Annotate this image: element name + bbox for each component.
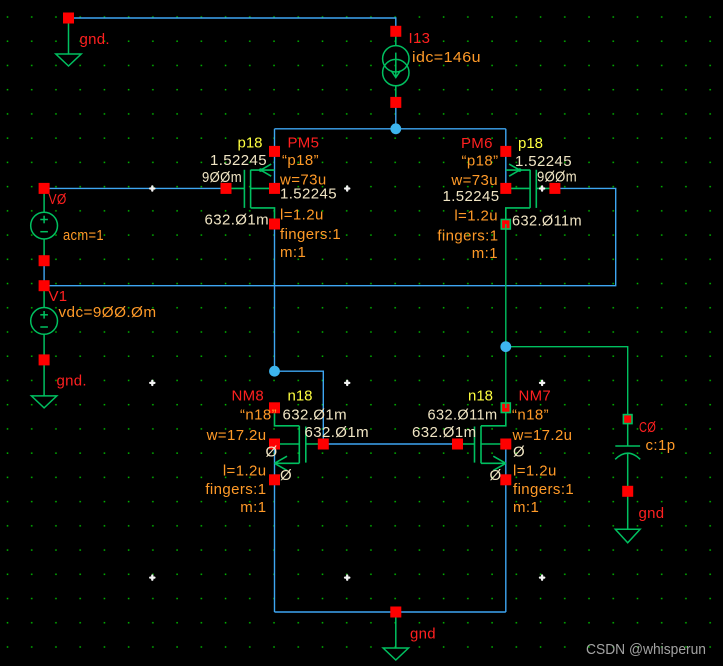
- pin I13 minus: [390, 97, 401, 108]
- svg-text:PM6: PM6: [461, 135, 493, 152]
- svg-text:632.Ø1m: 632.Ø1m: [412, 424, 477, 441]
- junction left output node: [269, 366, 280, 377]
- pin NM7 drain (green outlined): [501, 403, 510, 413]
- svg-text:l=1.2u: l=1.2u: [513, 463, 557, 480]
- svg-text:Ø: Ø: [490, 467, 502, 484]
- svg-text:PM5: PM5: [288, 135, 320, 152]
- svg-text:1.52245: 1.52245: [210, 152, 267, 169]
- PINS: [39, 13, 634, 618]
- junction right output node: [500, 341, 511, 352]
- svg-text:m:1: m:1: [472, 245, 498, 262]
- svg-text:idc=146u: idc=146u: [412, 49, 481, 66]
- svg-text:Ø: Ø: [513, 444, 525, 461]
- svg-text:w=17.2u: w=17.2u: [512, 427, 573, 444]
- wire NM7 bulk-source to bottom rail: [505, 444, 507, 612]
- pin I13 plus: [390, 26, 401, 37]
- svg-text:1.52245: 1.52245: [280, 186, 337, 203]
- svg-text:632.Ø11m: 632.Ø11m: [512, 213, 582, 230]
- svg-text:fingers:1: fingers:1: [437, 228, 498, 245]
- vsource V0: [31, 188, 104, 260]
- ground gnd1 top-left: [56, 18, 110, 66]
- svg-text:gnd.: gnd.: [57, 373, 87, 390]
- wire tail to PM6 source/bulk: [505, 129, 507, 189]
- wire junction to capacitor C0 (green net): [506, 347, 628, 419]
- svg-text:9ØØm: 9ØØm: [202, 169, 242, 186]
- svg-text:m:1: m:1: [280, 244, 306, 261]
- svg-text:NM7: NM7: [519, 388, 552, 405]
- svg-text:Ø: Ø: [280, 467, 292, 484]
- svg-text:NM8: NM8: [232, 388, 265, 405]
- wire NM8 bulk-source to bottom rail: [274, 444, 276, 612]
- svg-text:632.Ø1m: 632.Ø1m: [305, 424, 370, 441]
- svg-text:VØ: VØ: [49, 191, 67, 208]
- svg-text:1.52245: 1.52245: [515, 153, 572, 170]
- pin PM6 bulk: [500, 183, 511, 194]
- pin V0 plus: [39, 183, 50, 194]
- wire NM8 gate to NM7 gate: [323, 443, 457, 445]
- pin NM8 gate: [318, 439, 329, 450]
- svg-text:l=1.2u: l=1.2u: [454, 208, 498, 225]
- pin V0 minus: [39, 255, 50, 266]
- svg-text:CSDN @whisperun: CSDN @whisperun: [586, 641, 706, 658]
- wire gnd1 to I13 top: [69, 18, 396, 31]
- svg-text:vdc=9ØØ.Øm: vdc=9ØØ.Øm: [59, 304, 157, 321]
- pin NM7 bulk: [500, 439, 511, 450]
- wire I13 bottom to tail junction: [395, 102, 397, 128]
- svg-text:l=1.2u: l=1.2u: [223, 463, 267, 480]
- wire PM5 drain to node junction: [274, 224, 276, 371]
- svg-text:m:1: m:1: [513, 499, 539, 516]
- svg-text:l=1.2u: l=1.2u: [280, 207, 324, 224]
- pin PM5 drain: [269, 219, 280, 230]
- svg-text:p18: p18: [518, 135, 543, 152]
- svg-text:632.Ø1m: 632.Ø1m: [283, 407, 348, 424]
- pin PM6 drain (green outlined): [501, 220, 510, 230]
- svg-text:CØ: CØ: [639, 419, 656, 436]
- pin NM7 gate: [452, 439, 463, 450]
- pin gnd1: [63, 13, 74, 24]
- svg-text:“n18”: “n18”: [240, 407, 277, 424]
- svg-text:n18: n18: [468, 388, 493, 405]
- svg-text:n18: n18: [288, 388, 313, 405]
- ground gnd2 below V1: [31, 360, 87, 408]
- svg-text:fingers:1: fingers:1: [280, 226, 341, 243]
- svg-text:“p18”: “p18”: [282, 152, 319, 169]
- wire tail rail: [275, 128, 506, 130]
- svg-text:I13: I13: [409, 30, 431, 47]
- wire V1 to PM6 gate: [44, 188, 616, 285]
- pin PM5 source: [269, 146, 280, 157]
- svg-text:V1: V1: [49, 288, 68, 305]
- svg-text:9ØØm: 9ØØm: [537, 169, 577, 186]
- nmos NM8: [275, 408, 324, 471]
- pmos PM6: [506, 164, 555, 224]
- pin PM5 bulk: [269, 183, 280, 194]
- wire tail to PM5 source/bulk: [274, 129, 276, 189]
- pin NM7 source: [500, 474, 511, 485]
- pin NM8 source: [269, 474, 280, 485]
- svg-text:gnd: gnd: [410, 626, 436, 643]
- pin C0 minus: [622, 486, 633, 497]
- svg-text:fingers:1: fingers:1: [513, 481, 574, 498]
- pin PM5 gate: [221, 183, 232, 194]
- wire junction to NM8 gate: [275, 371, 324, 444]
- pin PM6 gate: [549, 183, 560, 194]
- pin C0 plus (green outlined): [623, 415, 632, 424]
- junction tail node: [390, 123, 401, 134]
- svg-text:632.Ø11m: 632.Ø11m: [428, 407, 498, 424]
- svg-text:632.Ø1m: 632.Ø1m: [205, 212, 270, 229]
- svg-text:p18: p18: [238, 135, 263, 152]
- svg-text:“p18”: “p18”: [461, 153, 498, 170]
- ground gnd3 below C0: [615, 491, 664, 543]
- wire V0 minus to V1 plus: [43, 261, 45, 286]
- vsource V1: [31, 286, 157, 360]
- sparkles: origin markers: [150, 186, 154, 190]
- svg-text:Ø: Ø: [266, 444, 278, 461]
- ground gnd4 bottom center: [383, 612, 436, 660]
- svg-text:fingers:1: fingers:1: [205, 481, 266, 498]
- svg-text:w=17.2u: w=17.2u: [206, 427, 267, 444]
- nmos NM7: [458, 408, 506, 471]
- svg-text:acm=1: acm=1: [63, 227, 104, 244]
- pin NM8 bulk: [269, 439, 280, 450]
- svg-text:“n18”: “n18”: [512, 407, 549, 424]
- svg-text:m:1: m:1: [240, 499, 266, 516]
- svg-text:gnd.: gnd.: [80, 31, 110, 48]
- svg-text:1.52245: 1.52245: [442, 188, 499, 205]
- pmos PM5: [226, 164, 275, 224]
- wire junction to NM7 drain (green net): [505, 347, 507, 408]
- capacitor C0: [615, 419, 675, 491]
- wire bottom rail: [275, 611, 506, 613]
- current source I13: [383, 30, 481, 102]
- svg-text:c:1p: c:1p: [646, 437, 676, 454]
- wire V0 to PM5 gate: [44, 187, 226, 189]
- pin PM6 source: [500, 146, 511, 157]
- svg-text:w=73u: w=73u: [450, 172, 498, 189]
- svg-text:gnd: gnd: [639, 505, 665, 522]
- green net: PM6 drain / NM7 drain / C0: [506, 224, 628, 419]
- pin V1 plus: [39, 280, 50, 291]
- pin NM8 drain: [269, 402, 280, 413]
- pin gnd4: [390, 607, 401, 618]
- wire PM6 drain to node junction (green net): [505, 224, 507, 347]
- pin V1 minus: [39, 354, 50, 365]
